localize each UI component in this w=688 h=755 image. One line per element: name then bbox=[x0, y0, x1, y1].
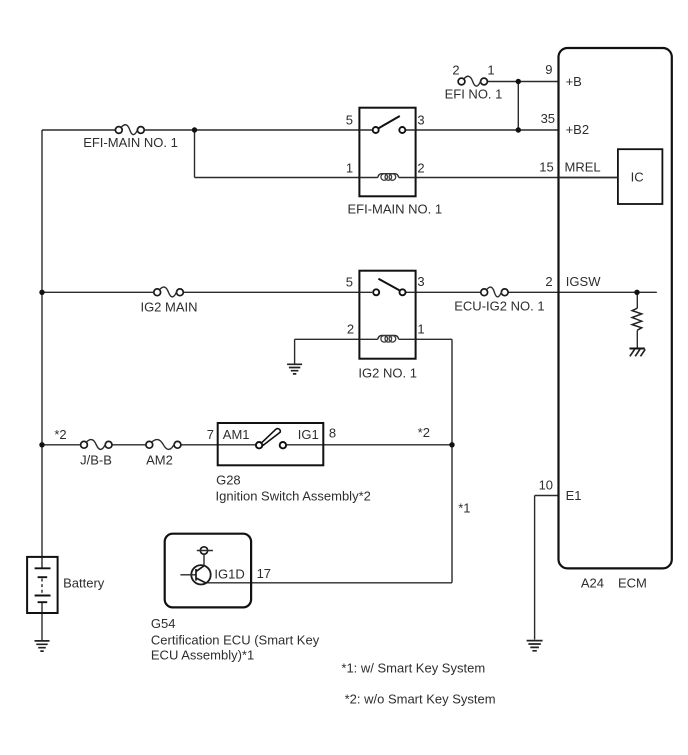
svg-text:7: 7 bbox=[207, 427, 214, 442]
svg-text:IC: IC bbox=[631, 169, 644, 184]
svg-text:1: 1 bbox=[487, 62, 494, 77]
svg-text:Battery: Battery bbox=[63, 576, 105, 591]
svg-text:EFI NO. 1: EFI NO. 1 bbox=[445, 87, 503, 102]
svg-text:1: 1 bbox=[346, 160, 353, 175]
svg-text:1: 1 bbox=[417, 322, 424, 337]
svg-text:G28: G28 bbox=[216, 472, 241, 487]
svg-text:ECU Assembly)*1: ECU Assembly)*1 bbox=[151, 647, 254, 662]
svg-text:J/B-B: J/B-B bbox=[80, 453, 112, 468]
svg-text:*2: *2 bbox=[418, 425, 430, 440]
svg-text:G54: G54 bbox=[151, 616, 176, 631]
svg-text:2: 2 bbox=[545, 274, 552, 289]
svg-text:35: 35 bbox=[541, 111, 555, 126]
svg-text:ECM: ECM bbox=[618, 575, 647, 590]
svg-text:5: 5 bbox=[346, 275, 353, 290]
svg-text:5: 5 bbox=[346, 113, 353, 128]
svg-text:IG1: IG1 bbox=[298, 427, 319, 442]
svg-text:AM2: AM2 bbox=[146, 453, 173, 468]
svg-text:Ignition Switch Assembly*2: Ignition Switch Assembly*2 bbox=[216, 488, 371, 503]
svg-text:9: 9 bbox=[545, 62, 552, 77]
svg-text:IGSW: IGSW bbox=[566, 274, 601, 289]
svg-text:Certification ECU (Smart Key: Certification ECU (Smart Key bbox=[151, 632, 320, 647]
svg-text:IG2 NO. 1: IG2 NO. 1 bbox=[358, 365, 417, 380]
svg-text:3: 3 bbox=[417, 274, 424, 289]
svg-text:E1: E1 bbox=[566, 488, 582, 503]
svg-text:2: 2 bbox=[347, 322, 354, 337]
svg-text:ECU-IG2 NO. 1: ECU-IG2 NO. 1 bbox=[454, 299, 544, 314]
svg-text:A24: A24 bbox=[581, 575, 604, 590]
svg-text:*2: *2 bbox=[54, 427, 66, 442]
svg-text:IG1D: IG1D bbox=[214, 566, 244, 581]
svg-text:*2: w/o Smart Key System: *2: w/o Smart Key System bbox=[345, 691, 496, 706]
svg-text:MREL: MREL bbox=[565, 159, 601, 174]
svg-text:8: 8 bbox=[329, 425, 336, 440]
svg-text:2: 2 bbox=[452, 62, 459, 77]
svg-text:10: 10 bbox=[539, 478, 553, 493]
svg-text:*1: w/ Smart Key System: *1: w/ Smart Key System bbox=[341, 661, 485, 676]
svg-text:17: 17 bbox=[257, 566, 271, 581]
svg-text:+B2: +B2 bbox=[566, 122, 590, 137]
svg-text:15: 15 bbox=[539, 159, 553, 174]
svg-text:EFI-MAIN NO. 1: EFI-MAIN NO. 1 bbox=[347, 202, 442, 217]
svg-text:2: 2 bbox=[417, 160, 424, 175]
svg-text:EFI-MAIN NO. 1: EFI-MAIN NO. 1 bbox=[83, 135, 178, 150]
svg-text:+B: +B bbox=[566, 74, 582, 89]
svg-text:IG2 MAIN: IG2 MAIN bbox=[140, 300, 197, 315]
svg-text:3: 3 bbox=[417, 113, 424, 128]
svg-text:*1: *1 bbox=[458, 500, 470, 515]
svg-text:AM1: AM1 bbox=[223, 427, 250, 442]
